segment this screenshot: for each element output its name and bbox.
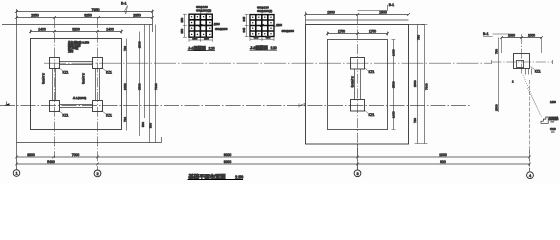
svg-text:700: 700 xyxy=(123,117,127,122)
dim line second xyxy=(15,16,154,19)
svg-text:1: 1 xyxy=(15,172,17,176)
KZ1 label xyxy=(531,67,535,70)
leader KZ1 a xyxy=(59,68,64,72)
beam vertical xyxy=(355,69,361,100)
axis bubble 4 xyxy=(527,172,534,179)
svg-text:750: 750 xyxy=(413,118,417,123)
svg-text:450: 450 xyxy=(266,36,271,40)
svg-text:5400: 5400 xyxy=(47,160,55,164)
svg-text:B-1: B-1 xyxy=(483,32,489,36)
dotted leaders xyxy=(523,75,541,116)
svg-text:Φ8@200(2): Φ8@200(2) xyxy=(196,8,211,12)
svg-text:1000: 1000 xyxy=(439,153,447,157)
svg-text:1500: 1500 xyxy=(495,104,499,111)
svg-text:1:100: 1:100 xyxy=(550,102,556,104)
svg-text:B-1: B-1 xyxy=(121,2,127,6)
svg-text:4Φ16: 4Φ16 xyxy=(214,23,221,26)
axis arrow left xyxy=(4,103,10,105)
leader KZ1 c xyxy=(59,111,64,115)
svg-text:1400: 1400 xyxy=(392,49,396,56)
dim3 1750s xyxy=(326,32,389,36)
bottom dim line 2 xyxy=(17,163,530,165)
pad KZ1 bottom-right xyxy=(93,101,103,112)
bubble stub 3 xyxy=(357,144,359,170)
top dim1 xyxy=(304,13,410,16)
svg-text:9000: 9000 xyxy=(224,153,232,157)
grid1 cell dots xyxy=(191,16,211,35)
bubble stub 4 xyxy=(529,150,531,172)
inner column square xyxy=(517,61,524,68)
svg-text:1:20: 1:20 xyxy=(271,46,277,50)
svg-text:1:50: 1:50 xyxy=(235,174,244,179)
svg-text:1750: 1750 xyxy=(338,30,345,34)
beam left xyxy=(53,69,56,101)
top dim2 xyxy=(306,19,409,21)
svg-text:KZ1: KZ1 xyxy=(63,113,69,117)
footing mat rectangle J-1 xyxy=(31,39,122,130)
svg-text:7950: 7950 xyxy=(92,8,100,12)
svg-text:350: 350 xyxy=(204,36,209,40)
grid2 left dim xyxy=(245,15,249,37)
grid1 bars vertical xyxy=(195,14,207,37)
svg-text:2350: 2350 xyxy=(133,14,141,18)
svg-text:350: 350 xyxy=(192,36,197,40)
leader KZ bottom xyxy=(365,110,369,113)
svg-text:Φ8@200: Φ8@200 xyxy=(215,27,228,31)
svg-text:1000: 1000 xyxy=(508,34,515,38)
svg-text:750: 750 xyxy=(417,35,421,40)
centerline vertical pad col A xyxy=(54,18,56,158)
svg-text:500: 500 xyxy=(141,122,145,127)
svg-text:Φ8@200(2): Φ8@200(2) xyxy=(257,9,272,13)
svg-text:7000: 7000 xyxy=(72,153,80,157)
svg-text:3: 3 xyxy=(356,172,358,176)
svg-text:7000: 7000 xyxy=(154,83,158,90)
svg-text:450: 450 xyxy=(254,36,259,40)
right dim chain line d xyxy=(149,25,151,143)
grid1 left dim xyxy=(183,14,187,37)
svg-text:750: 750 xyxy=(495,49,499,54)
svg-text:1750: 1750 xyxy=(369,30,376,34)
svg-text:2350: 2350 xyxy=(31,14,39,18)
horizontal centerline xyxy=(492,61,553,63)
outer rect xyxy=(306,25,409,145)
svg-text:KZ1: KZ1 xyxy=(106,71,112,75)
svg-text:9000: 9000 xyxy=(224,160,232,164)
svg-text:7000: 7000 xyxy=(425,83,429,90)
grid1 right leader xyxy=(212,25,216,27)
svg-text:JL1(400): JL1(400) xyxy=(81,73,85,84)
svg-text:350: 350 xyxy=(180,28,184,33)
svg-text:1400: 1400 xyxy=(392,111,396,118)
svg-text:J-1配筋图: J-1配筋图 xyxy=(188,44,206,50)
svg-text:B-1: B-1 xyxy=(389,3,394,7)
axis tick left of block2 xyxy=(299,104,305,108)
svg-text:3500: 3500 xyxy=(392,81,396,88)
axis line horizontal main xyxy=(0,105,470,107)
svg-text:900: 900 xyxy=(440,160,446,164)
grid line 1 vertical xyxy=(16,9,18,170)
grid1 square xyxy=(189,14,212,37)
grid2 square xyxy=(250,15,274,37)
beam top xyxy=(60,62,93,65)
grid2 bars vertical xyxy=(256,15,268,37)
left dim xyxy=(498,38,500,113)
right dim chain line c xyxy=(144,25,146,119)
right dim chain line b xyxy=(139,32,141,137)
svg-text:1000: 1000 xyxy=(528,34,535,38)
svg-text:JL(4200): JL(4200) xyxy=(350,76,354,87)
grid2 bars horizontal xyxy=(250,20,274,31)
right dim chain line a xyxy=(126,39,128,131)
svg-text:1900: 1900 xyxy=(379,11,387,15)
svg-text:KZ1: KZ1 xyxy=(535,70,541,74)
svg-text:3500: 3500 xyxy=(138,83,142,90)
bottom dim line 1 xyxy=(17,156,530,158)
svg-text:1900: 1900 xyxy=(327,11,335,15)
grid2 cell dots xyxy=(252,17,272,35)
centerline vertical xyxy=(357,15,359,170)
pad KZ1 top-left xyxy=(50,58,60,69)
svg-text:KZ1: KZ1 xyxy=(63,71,69,75)
dowels below pad xyxy=(526,69,532,75)
dim line 1400 3200 1400 xyxy=(29,30,123,34)
svg-text:4Φ16: 4Φ16 xyxy=(276,24,283,27)
grid1 bars horizontal xyxy=(189,20,212,31)
pad KZ1 bottom-left xyxy=(50,101,60,112)
B-1 flag block2 xyxy=(358,5,388,11)
svg-text:1400: 1400 xyxy=(38,28,46,32)
svg-text:KZ1: KZ1 xyxy=(369,70,375,74)
svg-text:345: 345 xyxy=(242,16,246,21)
svg-text:3200: 3200 xyxy=(72,28,80,32)
svg-text:JL1(4200): JL1(4200) xyxy=(73,96,87,100)
svg-text:KZ1: KZ1 xyxy=(106,113,112,117)
right dim chain line e xyxy=(155,25,157,143)
step icon xyxy=(541,117,548,123)
dashed drop line xyxy=(529,80,531,172)
pad square xyxy=(514,54,530,69)
dim line 1000 1000 xyxy=(500,36,543,39)
beam bottom xyxy=(60,105,93,108)
svg-text:345: 345 xyxy=(242,27,246,32)
axis bubble 2 xyxy=(94,170,101,177)
grid2 right leader xyxy=(275,25,280,27)
svg-text:Φ8@200: Φ8@200 xyxy=(282,29,295,33)
pad top KZ xyxy=(351,58,365,70)
leader KZ1 d xyxy=(102,111,107,115)
svg-text:3400: 3400 xyxy=(123,83,127,90)
svg-text:2800: 2800 xyxy=(138,41,142,48)
svg-text:1400: 1400 xyxy=(106,28,114,32)
inner dim vertical xyxy=(392,40,396,130)
svg-text:2: 2 xyxy=(512,80,514,84)
svg-text:2: 2 xyxy=(96,172,98,176)
left edge extension xyxy=(305,12,307,25)
grid1 bottom dim xyxy=(189,38,212,42)
beam right xyxy=(96,69,100,101)
svg-text:500: 500 xyxy=(149,123,153,128)
pad bottom KZ xyxy=(351,100,365,112)
svg-text:KZ1: KZ1 xyxy=(369,113,375,117)
long boundary line top xyxy=(2,10,425,33)
svg-text:4: 4 xyxy=(529,174,531,178)
inner rect xyxy=(328,40,388,130)
svg-text:3800: 3800 xyxy=(27,153,35,157)
dim line total 7950 xyxy=(15,10,154,13)
leader KZ top xyxy=(365,68,369,71)
svg-text:基础梁: 基础梁 xyxy=(548,116,559,121)
extension verticals xyxy=(502,38,542,54)
bottom boundary of dims xyxy=(17,137,162,143)
leader KZ1 b xyxy=(102,68,107,72)
axis line upper right (to detail) xyxy=(44,62,491,64)
right dim verticals xyxy=(415,25,428,144)
pad KZ1 top-right xyxy=(93,58,103,69)
svg-text:700: 700 xyxy=(123,46,127,51)
svg-text:C10: C10 xyxy=(550,127,556,131)
svg-text:1:20: 1:20 xyxy=(209,46,215,50)
centerline vertical pad col B xyxy=(97,18,99,170)
svg-text:双向: 双向 xyxy=(68,49,74,53)
svg-text:2800: 2800 xyxy=(413,80,417,87)
svg-text:3250: 3250 xyxy=(84,14,92,18)
svg-text:JL1(400): JL1(400) xyxy=(41,73,45,84)
grid2 bottom dim xyxy=(250,37,274,41)
vertical centerline xyxy=(521,34,523,75)
svg-text:J-2配筋图: J-2配筋图 xyxy=(250,44,268,50)
svg-text:350: 350 xyxy=(180,17,184,22)
axis bubble 3 xyxy=(354,170,361,177)
axis bubble 1 xyxy=(13,170,20,177)
